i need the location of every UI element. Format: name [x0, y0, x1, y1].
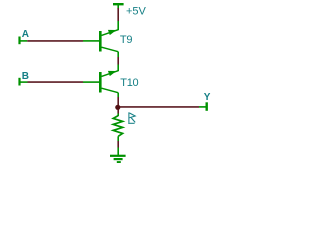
wire: B to T10 base — [21, 81, 100, 83]
svg-text:T10: T10 — [120, 77, 138, 89]
svg-text:T9: T9 — [120, 34, 133, 46]
input port A — [18, 37, 20, 45]
wire: resistor to ground — [117, 141, 119, 155]
svg-text:A: A — [22, 29, 29, 40]
wire: T9 collector to T10 emitter — [117, 52, 119, 71]
input port B — [18, 78, 20, 86]
label R1 (rotated) — [128, 112, 135, 123]
svg-text:+5V: +5V — [126, 5, 147, 17]
transistor T9 — [100, 30, 118, 52]
power +5V supply symbol — [113, 4, 124, 8]
wire: node to output Y — [120, 106, 206, 108]
node junction — [115, 105, 120, 110]
wire: A to T9 base — [21, 40, 100, 42]
transistor T10 — [100, 71, 118, 93]
wire: T10 collector down to node — [117, 93, 119, 105]
svg-text:Y: Y — [204, 92, 211, 103]
wire: +5V rail to T9 emitter — [117, 8, 119, 30]
resistor R1 — [113, 116, 122, 141]
ground — [110, 156, 126, 162]
output port Y — [205, 102, 207, 111]
wire: node to resistor — [117, 110, 119, 117]
svg-text:B: B — [22, 71, 29, 82]
